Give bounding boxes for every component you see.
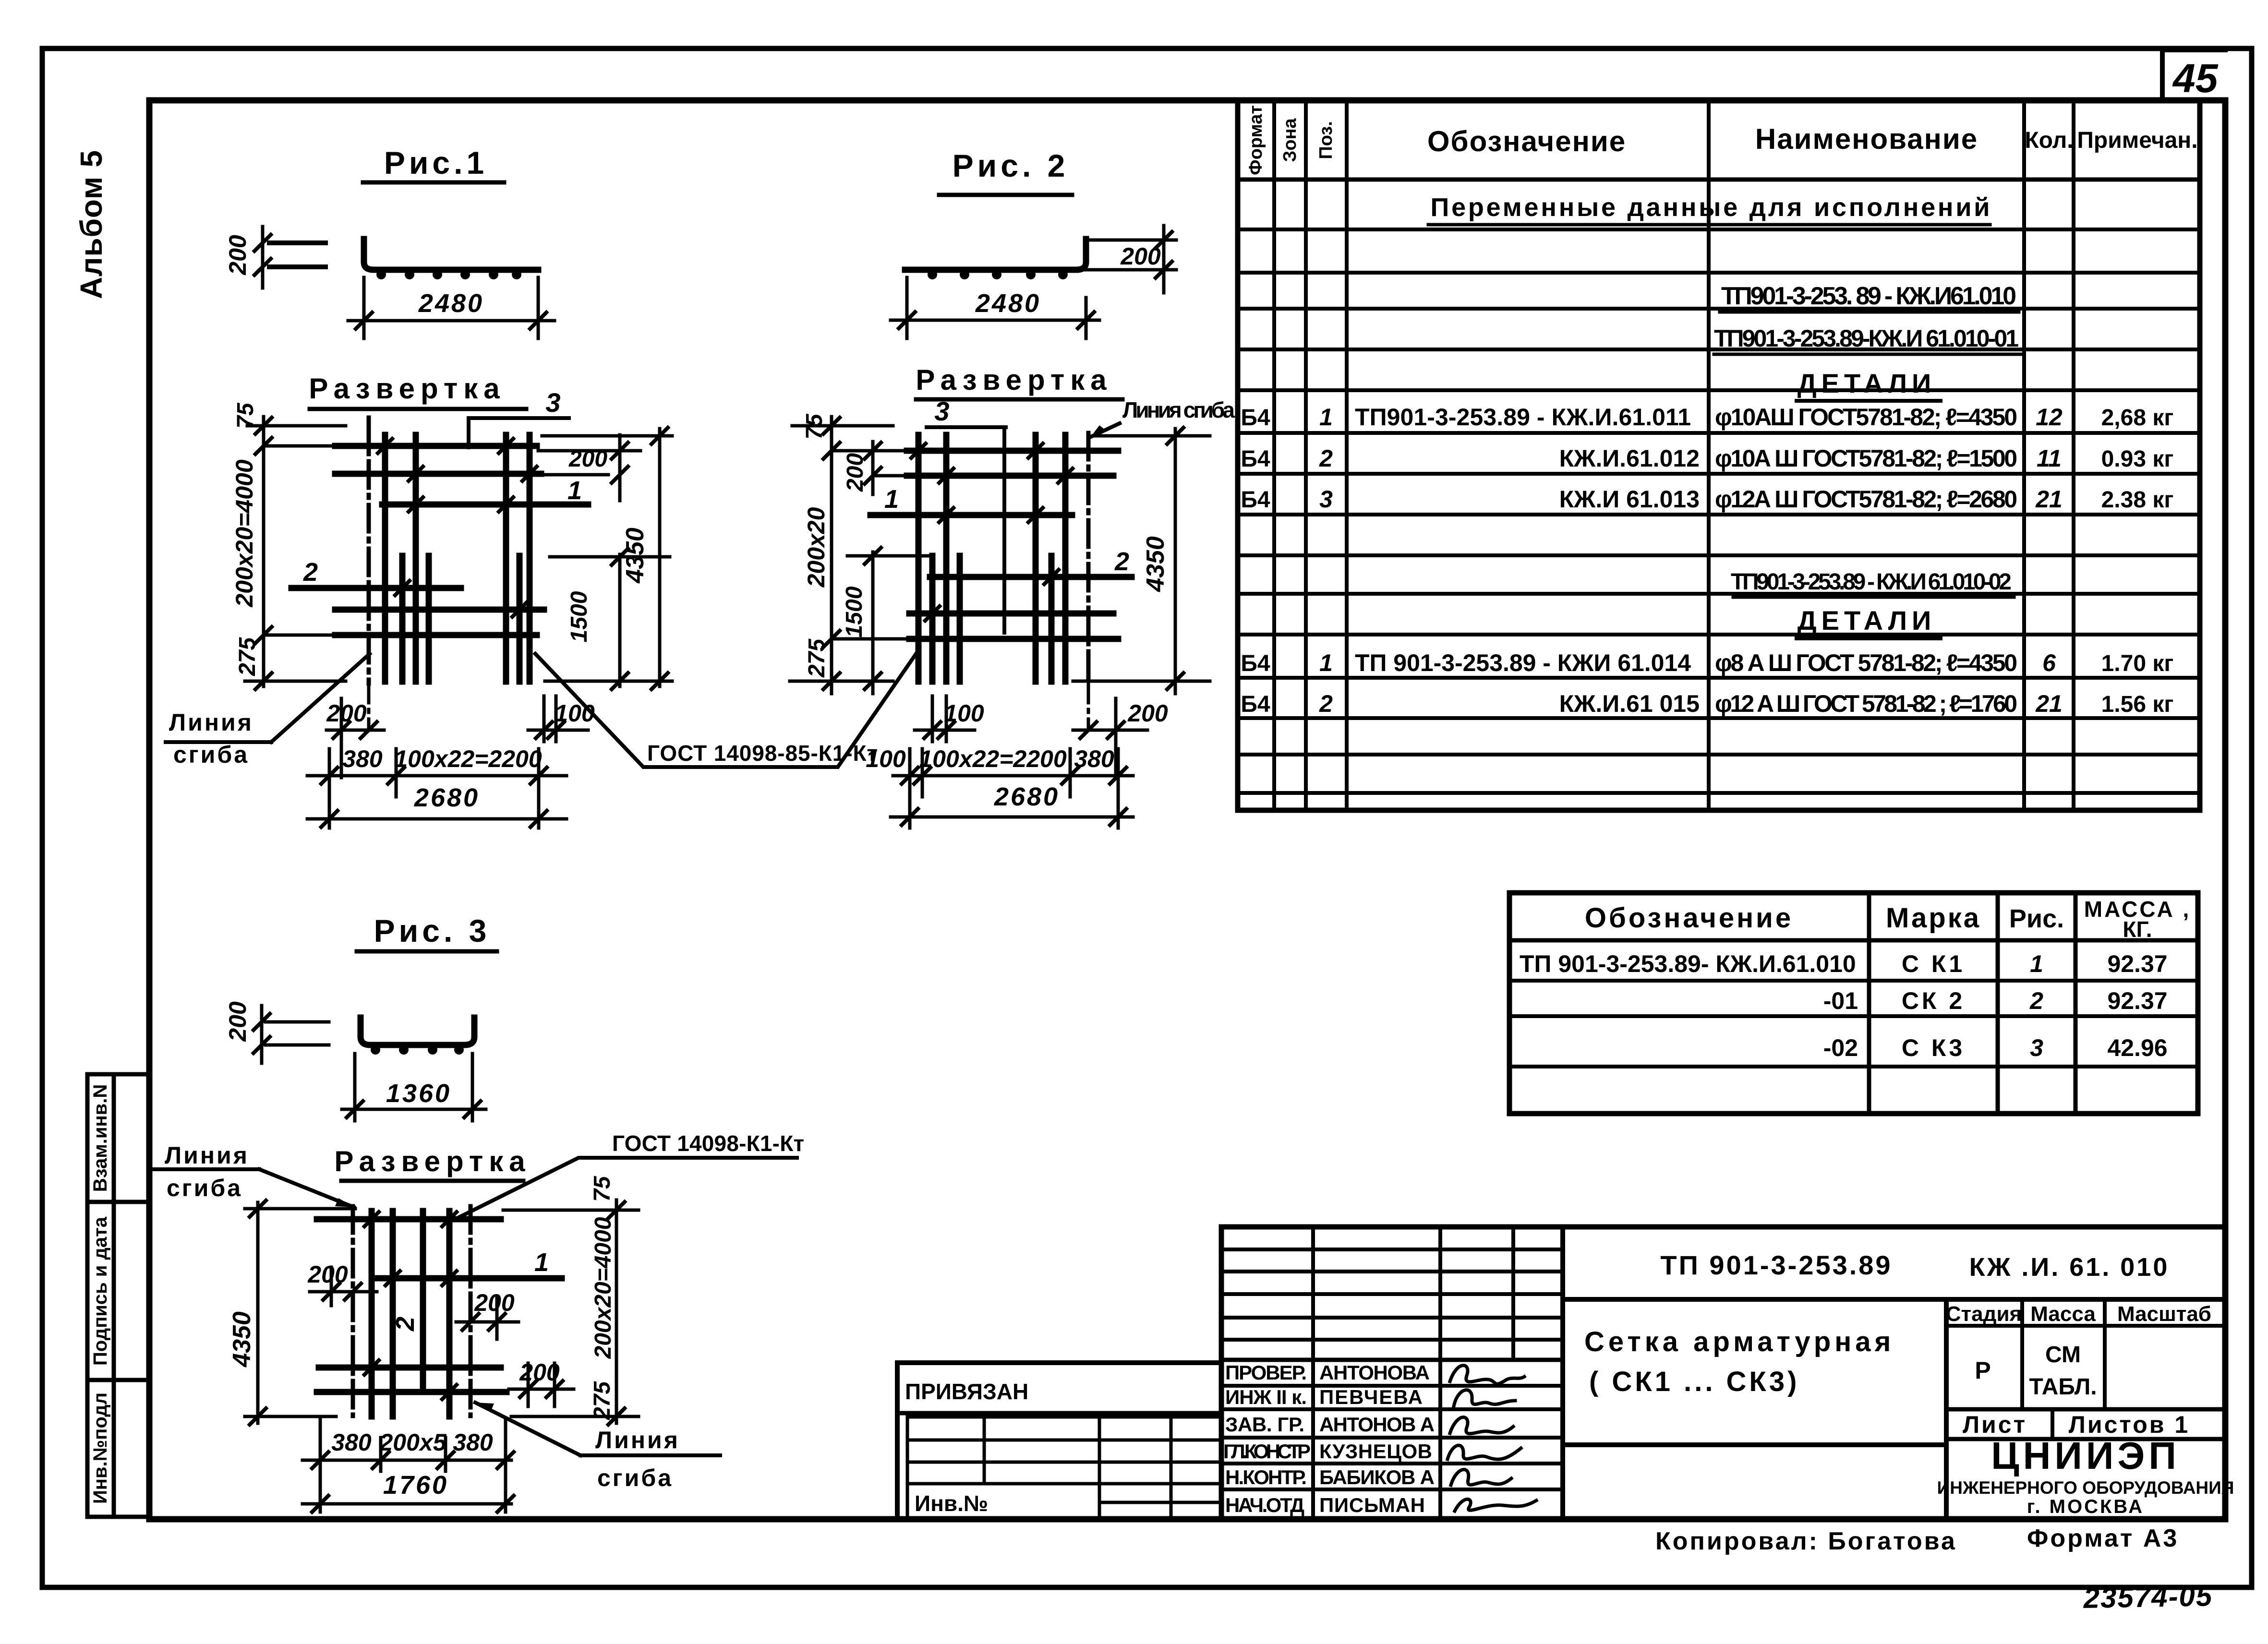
svg-text:Р: Р: [1975, 1357, 1991, 1384]
svg-text:200: 200: [326, 700, 367, 727]
figure 3 weld ticks: [364, 1212, 457, 1399]
svg-text:2: 2: [303, 558, 318, 587]
svg-text:Развертка: Развертка: [334, 1145, 531, 1177]
svg-text:ДЕТАЛИ: ДЕТАЛИ: [1798, 368, 1936, 398]
svg-text:Поз.: Поз.: [1316, 121, 1336, 159]
figure 3 bottom dims 380 / 200x5 / 380: [302, 1418, 514, 1512]
figure 1 fold line label: [166, 654, 370, 768]
figure 2 right dimension 4350: [1073, 428, 1210, 694]
svg-text:1.70 кг: 1.70 кг: [2101, 651, 2174, 676]
svg-text:г. МОСКВА: г. МОСКВА: [2027, 1496, 2144, 1517]
svg-text:100x22=2200: 100x22=2200: [919, 745, 1066, 772]
sheet number box "45": [2162, 50, 2225, 101]
figure 2 bar labels 1 and 2: [884, 485, 1129, 576]
figure 3 section view: [361, 1018, 474, 1055]
figure 1 bottom dim 200: [326, 684, 384, 778]
svg-text:БАБИКОВ А: БАБИКОВ А: [1319, 1466, 1435, 1488]
figure 1 development label: [309, 372, 526, 409]
figure 2 development label: [916, 364, 1122, 399]
svg-text:Линия: Линия: [169, 709, 253, 736]
figure 2 dim 2480: [891, 277, 1099, 338]
figure 3 left dim 200: [307, 1261, 377, 1306]
svg-text:сгиба: сгиба: [597, 1464, 673, 1491]
svg-text:Взам.инв.N: Взам.инв.N: [90, 1084, 111, 1192]
svg-text:200x5: 200x5: [379, 1429, 446, 1456]
figure 1 left dimension chain: [231, 402, 346, 689]
svg-text:ТАБЛ.: ТАБЛ.: [2029, 1374, 2097, 1400]
figure 2 section dim 200: [1083, 226, 1176, 293]
svg-text:2,68 кг: 2,68 кг: [2101, 405, 2174, 431]
svg-text:200: 200: [224, 1001, 251, 1042]
svg-text:-02: -02: [1823, 1034, 1858, 1061]
svg-text:Копировал: Богатова: Копировал: Богатова: [1655, 1527, 1957, 1555]
figure 3 dim 1360: [342, 1054, 486, 1121]
svg-text:Б4: Б4: [1241, 405, 1270, 431]
svg-text:200: 200: [843, 453, 868, 492]
title block: document numbers: [1660, 1250, 2169, 1282]
figure 3 section dim 200: [224, 1001, 329, 1063]
footer: copied by: [1655, 1527, 1957, 1555]
svg-text:4350: 4350: [1142, 536, 1170, 592]
svg-text:Примечан.: Примечан.: [2077, 128, 2197, 153]
svg-text:Стадия: Стадия: [1946, 1302, 2022, 1326]
specification table header: [1246, 105, 2198, 175]
svg-text:Линия сгиба: Линия сгиба: [1122, 397, 1235, 422]
svg-text:Альбом 5: Альбом 5: [74, 150, 109, 299]
svg-text:ИНЖЕНЕРНОГО ОБОРУДОВАНИЯ: ИНЖЕНЕРНОГО ОБОРУДОВАНИЯ: [1937, 1478, 2234, 1498]
svg-text:Инв.№: Инв.№: [915, 1491, 988, 1516]
svg-text:100: 100: [944, 700, 984, 727]
svg-text:ТП901-3-253.89-КЖ.И 61.010-01: ТП901-3-253.89-КЖ.И 61.010-01: [1714, 325, 2019, 352]
figure 3 mesh vertical bars: [372, 1211, 449, 1416]
figure 2 fold line: [1086, 433, 1091, 684]
svg-text:ГОСТ 14098-К1-Кт: ГОСТ 14098-К1-Кт: [612, 1131, 804, 1156]
title block: drawing name: [1584, 1326, 1894, 1397]
svg-text:ЦНИИЭП: ЦНИИЭП: [1991, 1434, 2180, 1477]
footer: handwritten inventory number: [2083, 1580, 2213, 1614]
figure 1 mesh vertical bars: [385, 435, 530, 682]
svg-text:1360: 1360: [386, 1079, 451, 1108]
figure 3 development label: [334, 1145, 531, 1181]
figure 3 right dim 200 upper: [456, 1289, 519, 1339]
svg-text:Рис. 3: Рис. 3: [374, 913, 491, 948]
svg-text:Обозначение: Обозначение: [1427, 125, 1626, 157]
svg-text:21: 21: [2035, 690, 2063, 717]
svg-text:СК 2: СК 2: [1902, 987, 1965, 1014]
svg-text:Линия: Линия: [595, 1427, 680, 1453]
svg-text:ТП 901-3-253.89 - КЖИ 61.014: ТП 901-3-253.89 - КЖИ 61.014: [1355, 649, 1691, 676]
svg-text:φ12 А Ш ГОСТ 5781-82 ; ℓ=1760: φ12 А Ш ГОСТ 5781-82 ; ℓ=1760: [1715, 690, 2017, 717]
svg-text:3: 3: [545, 387, 560, 418]
figure 1 mesh horizontal bars: [291, 446, 588, 635]
figure 3 right dim 200 lower: [509, 1359, 574, 1406]
svg-text:сгиба: сгиба: [167, 1175, 242, 1201]
specification table rows text: [1241, 193, 2173, 717]
svg-text:380: 380: [1074, 745, 1114, 772]
svg-text:КУЗНЕЦОВ: КУЗНЕЦОВ: [1319, 1440, 1432, 1463]
svg-text:200: 200: [307, 1261, 348, 1288]
figure 3 mesh horizontal bars: [317, 1219, 562, 1392]
marks/mass table: [1509, 893, 2198, 1114]
svg-text:4350: 4350: [228, 1311, 256, 1368]
svg-text:92.37: 92.37: [2107, 987, 2167, 1014]
figure 3 left dimension 4350: [228, 1200, 355, 1425]
svg-text:Б4: Б4: [1241, 487, 1270, 513]
figure 2 mesh vertical bars: [918, 435, 1065, 682]
svg-text:КЖ.И.61 015: КЖ.И.61 015: [1559, 690, 1700, 717]
figure 2 left dimension chain: [790, 413, 912, 694]
svg-text:Формат А3: Формат А3: [2027, 1524, 2179, 1552]
svg-text:1500: 1500: [842, 586, 867, 637]
svg-text:Масса: Масса: [2030, 1302, 2096, 1326]
svg-text:Подпись и дата: Подпись и дата: [90, 1216, 111, 1366]
svg-text:φ10А Ш ГОСТ5781-82; ℓ=1500: φ10А Ш ГОСТ5781-82; ℓ=1500: [1715, 445, 2017, 472]
figure 2 fold line label: [1091, 397, 1235, 437]
svg-text:Зона: Зона: [1280, 118, 1300, 162]
svg-text:Наименование: Наименование: [1755, 123, 1978, 155]
figure 2 inner dims 200 and 1500: [842, 442, 931, 694]
svg-text:11: 11: [2037, 445, 2062, 472]
figure 1 fold line: [367, 418, 371, 684]
svg-text:1: 1: [884, 485, 899, 514]
svg-text:Масштаб: Масштаб: [2117, 1302, 2211, 1326]
figure 3 right dimension chain 75 / 200x20=4000 / 275: [503, 1176, 639, 1425]
footer: format: [2027, 1524, 2179, 1552]
figure 1 callout bar 3: [469, 387, 569, 447]
svg-text:Рис.: Рис.: [2009, 904, 2064, 933]
svg-text:21: 21: [2035, 486, 2063, 513]
svg-text:1760: 1760: [383, 1471, 448, 1500]
svg-text:3: 3: [2030, 1034, 2043, 1061]
figure 2 weld ticks: [911, 444, 1073, 621]
svg-text:Кол.: Кол.: [2025, 128, 2073, 153]
attachment block grid (Привязан): [897, 1363, 1221, 1519]
svg-text:1: 1: [534, 1248, 549, 1277]
svg-text:ПИСЬМАН: ПИСЬМАН: [1319, 1494, 1425, 1516]
svg-text:Обозначение: Обозначение: [1585, 902, 1793, 934]
svg-text:75: 75: [590, 1176, 615, 1202]
svg-text:Б4: Б4: [1241, 446, 1270, 472]
svg-text:200: 200: [474, 1289, 515, 1316]
album label "Альбом 5" (rotated): [74, 150, 109, 299]
svg-text:КЖ .И. 61. 010: КЖ .И. 61. 010: [1969, 1253, 2170, 1282]
figure 2 bottom dim 2680: [891, 782, 1133, 825]
figure 3 weld designation leader: [455, 1131, 804, 1219]
svg-text:2: 2: [1319, 690, 1333, 717]
figure 3 fold line label top left: [154, 1142, 354, 1207]
svg-text:380: 380: [342, 745, 383, 772]
svg-text:200x20=4000: 200x20=4000: [591, 1217, 616, 1359]
svg-text:200: 200: [1127, 700, 1168, 727]
svg-text:ТП901-3-253. 89 - КЖ.И61.010: ТП901-3-253. 89 - КЖ.И61.010: [1721, 282, 2016, 310]
figure 2 section view: [905, 239, 1086, 279]
svg-text:0.93 кг: 0.93 кг: [2101, 446, 2174, 472]
figure 1 right dimensions 200 and 1500: [538, 435, 670, 689]
svg-text:Переменные данные для исполне: Переменные данные для исполнений: [1431, 193, 1990, 222]
svg-text:45: 45: [2172, 56, 2219, 101]
svg-text:( СК1 ... СК3): ( СК1 ... СК3): [1589, 1366, 1799, 1397]
figure 1 section view (bent mesh profile): [269, 239, 538, 279]
svg-text:75: 75: [802, 413, 827, 440]
svg-text:КГ.: КГ.: [2123, 917, 2152, 942]
svg-text:ПРОВЕР.: ПРОВЕР.: [1225, 1361, 1307, 1384]
svg-text:Марка: Марка: [1886, 902, 1981, 934]
figure 1 bottom dims 380 and 100x22=2200: [307, 745, 567, 828]
svg-text:75: 75: [233, 402, 258, 429]
figure 1 dim 2480: [348, 277, 555, 338]
svg-text:2680: 2680: [414, 783, 480, 812]
svg-text:ТП 901-3-253.89: ТП 901-3-253.89: [1660, 1250, 1892, 1280]
svg-text:Рис.1: Рис.1: [384, 145, 488, 180]
svg-text:φ10АШ ГОСТ5781-82; ℓ=4350: φ10АШ ГОСТ5781-82; ℓ=4350: [1715, 404, 2017, 431]
svg-text:6: 6: [2042, 649, 2056, 676]
figure 2 bottom dim 100: [915, 696, 984, 742]
svg-text:φ8 А Ш ГОСТ 5781-82; ℓ=4350: φ8 А Ш ГОСТ 5781-82; ℓ=4350: [1715, 649, 2017, 676]
svg-text:1: 1: [567, 476, 582, 505]
svg-text:Развертка: Развертка: [916, 364, 1112, 396]
signature squiggles: [1448, 1366, 1536, 1511]
figure 3 fold lines: [353, 1206, 470, 1416]
svg-text:12: 12: [2036, 404, 2063, 431]
figure 1 title: [363, 145, 504, 182]
specification table grid: [1238, 100, 2200, 810]
figure 2 mesh horizontal bars: [870, 451, 1132, 639]
svg-text:ГОСТ 14098-85-К1-Кт: ГОСТ 14098-85-К1-Кт: [647, 741, 878, 766]
svg-text:200x20=4000: 200x20=4000: [231, 459, 258, 607]
svg-text:100: 100: [555, 700, 595, 727]
svg-text:100: 100: [866, 745, 906, 772]
svg-text:275: 275: [235, 637, 260, 676]
figure 2 title: [939, 148, 1072, 195]
figure 1 weld ticks: [378, 439, 537, 617]
svg-text:КЖ.И.61.012: КЖ.И.61.012: [1559, 445, 1700, 472]
svg-text:ИНЖ II к.: ИНЖ II к.: [1225, 1386, 1307, 1408]
weld designation leader and text (shared fig1/fig2): [535, 654, 916, 767]
svg-text:АНТОНОВ А: АНТОНОВ А: [1319, 1413, 1435, 1436]
svg-text:Формат: Формат: [1246, 105, 1266, 175]
svg-text:1: 1: [2030, 950, 2043, 977]
svg-text:ТП 901-3-253.89- КЖ.И.61.010: ТП 901-3-253.89- КЖ.И.61.010: [1520, 950, 1856, 977]
svg-text:НАЧ.ОТД: НАЧ.ОТД: [1225, 1494, 1304, 1516]
svg-text:ГЛ.КОНСТР: ГЛ.КОНСТР: [1223, 1440, 1311, 1463]
svg-text:2: 2: [2029, 987, 2043, 1014]
svg-text:92.37: 92.37: [2107, 950, 2167, 977]
svg-text:1.56 кг: 1.56 кг: [2101, 692, 2174, 717]
svg-text:42.96: 42.96: [2107, 1034, 2167, 1061]
title block: signature rows: [1223, 1361, 1435, 1516]
left margin stamp strip: [87, 1074, 149, 1517]
svg-text:2.38 кг: 2.38 кг: [2101, 487, 2174, 513]
svg-text:ТП901-3-253.89 - КЖ.И 61.010-0: ТП901-3-253.89 - КЖ.И 61.010-02: [1731, 569, 2012, 595]
figure 3 title: [357, 913, 497, 951]
inner drawing frame: [149, 100, 2225, 1519]
svg-text:С К3: С К3: [1902, 1034, 1965, 1061]
figure 1 bar labels 1 and 2: [303, 476, 582, 587]
svg-text:ТП901-3-253.89 - КЖ.И.61.011: ТП901-3-253.89 - КЖ.И.61.011: [1355, 404, 1691, 431]
svg-text:Б4: Б4: [1241, 651, 1270, 676]
svg-text:200: 200: [519, 1359, 560, 1386]
figure 3 bottom dim 1760: [302, 1471, 514, 1512]
figure 1 bottom dim 2680: [307, 783, 567, 827]
svg-text:-01: -01: [1823, 987, 1858, 1014]
svg-text:2: 2: [391, 1317, 420, 1332]
svg-text:ДЕТАЛИ: ДЕТАЛИ: [1798, 605, 1936, 636]
svg-text:2480: 2480: [418, 289, 484, 318]
svg-text:АНТОНОВА: АНТОНОВА: [1319, 1361, 1430, 1384]
svg-text:Развертка: Развертка: [309, 372, 505, 405]
svg-text:200: 200: [224, 235, 251, 276]
figure 2 bottom dim 200: [1073, 684, 1168, 778]
svg-text:275: 275: [590, 1381, 615, 1420]
svg-text:2: 2: [1114, 547, 1129, 576]
svg-text:Н.КОНТР.: Н.КОНТР.: [1225, 1466, 1307, 1488]
svg-text:200x20: 200x20: [803, 507, 830, 588]
svg-text:Сетка арматурная: Сетка арматурная: [1584, 1326, 1894, 1357]
svg-text:Линия: Линия: [165, 1142, 249, 1169]
svg-text:Рис. 2: Рис. 2: [953, 148, 1069, 183]
svg-text:380: 380: [453, 1429, 493, 1456]
svg-text:ПРИВЯЗАН: ПРИВЯЗАН: [905, 1379, 1028, 1404]
svg-text:275: 275: [804, 638, 830, 678]
svg-text:3: 3: [1319, 486, 1333, 513]
svg-text:сгиба: сгиба: [173, 741, 249, 768]
figure 1 section dim 200: [224, 227, 271, 288]
figure 2 bottom dims 100, 100x22=2200, 380: [866, 745, 1133, 828]
title block: organization: [1937, 1434, 2234, 1517]
title block: stage/mass/scale: [1946, 1302, 2211, 1438]
svg-text:2480: 2480: [975, 289, 1041, 318]
svg-text:ЗАВ. ГР.: ЗАВ. ГР.: [1225, 1413, 1304, 1436]
svg-text:Б4: Б4: [1241, 692, 1270, 717]
svg-text:1500: 1500: [567, 591, 592, 642]
svg-text:100x22=2200: 100x22=2200: [394, 745, 542, 772]
svg-text:200: 200: [568, 446, 607, 472]
figure 3 fold line label bottom right: [475, 1403, 720, 1491]
figure 1 bottom dim 100: [528, 696, 595, 742]
svg-text:2680: 2680: [994, 782, 1060, 811]
svg-text:200: 200: [1120, 243, 1161, 270]
svg-text:Инв.№подл: Инв.№подл: [90, 1392, 111, 1504]
svg-text:380: 380: [331, 1429, 372, 1456]
figure 2 callout bar 3: [927, 396, 1006, 633]
title block grid: [1221, 1227, 2225, 1519]
svg-text:СМ: СМ: [2045, 1342, 2081, 1368]
svg-text:2: 2: [1319, 445, 1333, 472]
figure 3 bar labels 1 and 2: [391, 1248, 549, 1332]
figure 1 right dimension 4350: [542, 428, 672, 689]
svg-text:КЖ.И 61.013: КЖ.И 61.013: [1559, 486, 1700, 513]
svg-text:3: 3: [934, 396, 949, 426]
svg-text:С К1: С К1: [1902, 950, 1965, 977]
svg-text:23574-05: 23574-05: [2083, 1580, 2213, 1614]
svg-text:1: 1: [1319, 649, 1333, 676]
svg-text:φ12А Ш ГОСТ5781-82; ℓ=2680: φ12А Ш ГОСТ5781-82; ℓ=2680: [1715, 486, 2017, 513]
svg-text:1: 1: [1319, 404, 1333, 431]
